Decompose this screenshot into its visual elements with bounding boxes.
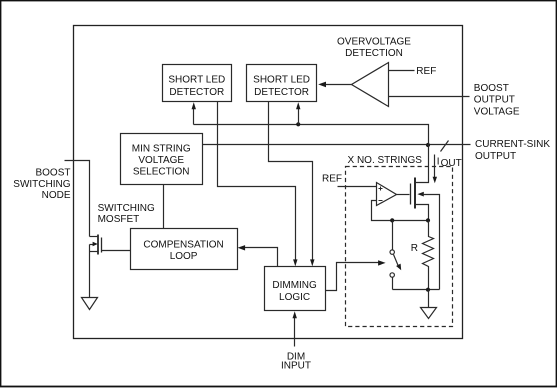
svg-text:OVERVOLTAGE: OVERVOLTAGE xyxy=(337,36,411,47)
drain lead xyxy=(415,145,429,183)
block COMPENSATION LOOP xyxy=(131,229,238,270)
wire left detector to dimming logic xyxy=(218,102,296,263)
svg-text:SWITCHING: SWITCHING xyxy=(98,203,155,214)
wire right detector to dimming logic xyxy=(269,102,313,263)
svg-text:DETECTOR: DETECTOR xyxy=(254,87,309,98)
wire dimming logic to compensation loop xyxy=(241,248,278,267)
wire to ground (sink) xyxy=(428,290,430,308)
transistor Q1 switching mosfet xyxy=(90,235,131,255)
channel bar xyxy=(97,235,99,255)
svg-text:LOGIC: LOGIC xyxy=(279,292,310,303)
svg-text:MOSFET: MOSFET xyxy=(98,214,140,225)
op-amp U2 current-sink amplifier xyxy=(377,183,397,206)
wire current-sink output xyxy=(203,144,471,146)
svg-text:REF: REF xyxy=(322,173,342,184)
node junction source/resistor xyxy=(426,218,430,222)
svg-text:MIN STRING: MIN STRING xyxy=(132,143,191,154)
wire arrow into right SHORT LED DETECTOR xyxy=(298,106,300,125)
wire comparator output to right SHORT LED DETECTOR xyxy=(325,84,352,86)
source lead xyxy=(415,205,429,221)
bulk arrow xyxy=(417,192,423,197)
svg-text:CURRENT-SINK: CURRENT-SINK xyxy=(475,139,550,150)
wire boost output voltage xyxy=(389,96,470,98)
transistor Q2 current-sink mosfet xyxy=(411,145,440,290)
svg-text:DETECTOR: DETECTOR xyxy=(169,87,224,98)
channel bar xyxy=(414,178,416,209)
svg-text:BOOST: BOOST xyxy=(474,83,509,94)
wire op-amp feedback xyxy=(372,201,429,221)
svg-text:BOOST: BOOST xyxy=(35,168,70,179)
slash current-sink xyxy=(441,141,449,152)
source lead xyxy=(90,251,99,253)
label DIM INPUT xyxy=(281,351,311,371)
svg-text:OUTPUT: OUTPUT xyxy=(474,95,515,106)
wire short-led feed line xyxy=(194,125,429,145)
IC boundary box xyxy=(74,26,463,339)
svg-text:DETECTION: DETECTION xyxy=(345,48,403,59)
svg-text:SHORT LED: SHORT LED xyxy=(253,75,310,86)
dashed box X NO. STRINGS xyxy=(346,167,453,327)
node junction on current-sink line xyxy=(426,143,430,147)
gate bar xyxy=(410,184,412,205)
svg-text:X NO. STRINGS: X NO. STRINGS xyxy=(348,155,423,166)
bulk arrow xyxy=(90,244,94,246)
wire REF input to comparator xyxy=(389,70,415,72)
switch S1 xyxy=(390,221,401,290)
op-amp U1 overvoltage comparator xyxy=(352,63,389,107)
svg-text:OUTPUT: OUTPUT xyxy=(475,151,516,162)
wire source to ground xyxy=(89,245,91,298)
wire dimming logic output to switch xyxy=(326,263,382,291)
svg-text:INPUT: INPUT xyxy=(281,361,311,372)
block SHORT LED DETECTOR (left) xyxy=(163,65,232,102)
wire MIN STRING to COMPENSATION LOOP xyxy=(163,185,165,229)
node junction switch top xyxy=(390,218,394,222)
wire sink bottom line xyxy=(393,289,440,291)
label BOOST OUTPUT VOLTAGE xyxy=(474,83,520,117)
svg-text:COMPENSATION: COMPENSATION xyxy=(143,240,223,251)
svg-text:SWITCHING: SWITCHING xyxy=(13,179,70,190)
gate bar xyxy=(101,238,103,253)
wire REF to op-amp xyxy=(338,186,377,188)
wire boost switching node stub xyxy=(65,161,90,237)
svg-text:VOLTAGE: VOLTAGE xyxy=(138,155,184,166)
label BOOST SWITCHING NODE xyxy=(13,168,71,202)
block SHORT LED DETECTOR (right) xyxy=(247,65,317,102)
wire IOUT arrow xyxy=(434,155,436,181)
svg-text:I: I xyxy=(437,156,440,167)
label OVERVOLTAGE DETECTION xyxy=(337,36,411,59)
label CURRENT-SINK OUTPUT xyxy=(475,139,550,162)
svg-text:R: R xyxy=(411,243,418,254)
svg-text:REF: REF xyxy=(416,66,436,77)
svg-text:SHORT LED: SHORT LED xyxy=(168,75,225,86)
label IOUT xyxy=(437,156,462,169)
label SWITCHING MOSFET xyxy=(98,203,155,225)
gate lead to compensation loop xyxy=(102,250,131,252)
svg-text:LOOP: LOOP xyxy=(170,251,198,262)
svg-text:VOLTAGE: VOLTAGE xyxy=(474,106,520,117)
block DIMMING LOGIC xyxy=(265,267,326,311)
svg-text:NODE: NODE xyxy=(42,190,71,201)
block MIN STRING VOLTAGE SELECTION xyxy=(121,134,203,185)
ground (current sink) xyxy=(421,308,437,319)
svg-text:OUT: OUT xyxy=(441,158,462,169)
node junction short-led feed xyxy=(296,122,300,126)
resistor R xyxy=(411,221,434,290)
node junction bottom xyxy=(426,288,430,292)
drain lead xyxy=(90,236,99,238)
ground (switching mosfet) xyxy=(82,298,98,310)
wire op-amp output to gate xyxy=(397,194,410,196)
wire arrow into left SHORT LED DETECTOR xyxy=(193,106,195,125)
svg-text:DIMMING: DIMMING xyxy=(272,280,317,291)
svg-text:SELECTION: SELECTION xyxy=(133,167,190,178)
wire DIM INPUT arrow xyxy=(294,315,296,347)
